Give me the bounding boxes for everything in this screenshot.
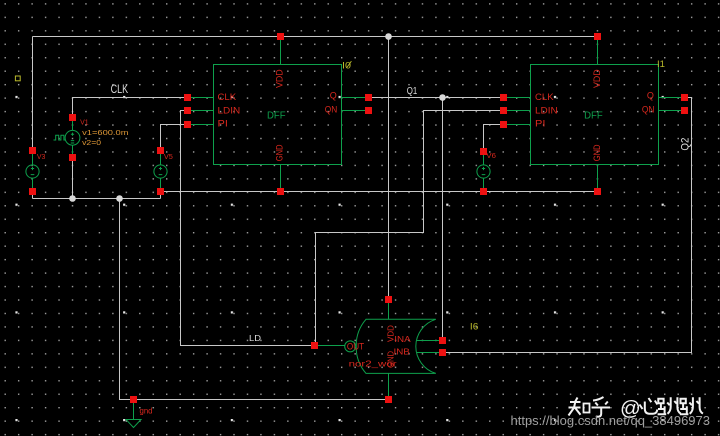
DFF I1 pin squares — [500, 33, 688, 195]
watermark zhihu — [569, 397, 611, 417]
vsource V5 — [154, 151, 167, 192]
V5 terminals — [157, 147, 164, 195]
svg-text:Q: Q — [330, 91, 337, 101]
DFF I0 labels — [218, 69, 338, 161]
svg-text:Q: Q — [647, 91, 654, 101]
svg-text:DFF: DFF — [584, 111, 603, 122]
vsource V6 — [477, 152, 490, 192]
svg-text:QN: QN — [325, 104, 338, 114]
svg-text:V6: V6 — [486, 151, 496, 160]
vsource V1 (vpulse) — [54, 118, 80, 158]
wire V3 top drop — [32, 37, 34, 151]
svg-text:Q2: Q2 — [680, 138, 692, 151]
svg-text:nor2_wor: nor2_wor — [349, 360, 397, 369]
nor2 pin squares — [311, 296, 446, 403]
wire LD net from right DFF LDIN — [316, 111, 504, 346]
wire PI to V5 — [161, 125, 188, 151]
svg-text:VDD: VDD — [592, 69, 603, 88]
DFF I1 labels — [535, 69, 654, 161]
junction VDD rail/mid drop — [385, 33, 392, 40]
svg-text:V3: V3 — [37, 152, 46, 161]
svg-text:VDD: VDD — [275, 69, 286, 88]
junction rail V1 — [69, 195, 76, 202]
V6 terminals — [480, 148, 487, 195]
wire V5 bottom stub — [160, 192, 162, 199]
wire VDD top rail — [33, 36, 598, 38]
sheet marker — [15, 76, 20, 81]
svg-text:INA: INA — [394, 334, 411, 344]
DFF I1 body — [503, 37, 685, 192]
wire V1 bottom stub — [72, 158, 74, 199]
DFF I0 pin squares — [184, 33, 372, 195]
wire Q1 to INA — [442, 98, 444, 341]
wire Q1 net — [369, 97, 504, 99]
svg-text:I1: I1 — [657, 59, 665, 69]
junction Q1/INA — [439, 94, 446, 101]
V1 terminals — [69, 114, 76, 161]
svg-text:I6: I6 — [470, 321, 479, 331]
wire VDD mid drop to nor2 — [388, 37, 390, 300]
svg-text:LDIN: LDIN — [535, 106, 558, 117]
ground symbol — [126, 403, 141, 428]
svg-text:V1: V1 — [80, 117, 89, 126]
wire Q2 net — [443, 98, 692, 353]
svg-text:v2=0: v2=0 — [82, 138, 101, 147]
svg-text:OUT: OUT — [347, 342, 364, 353]
svg-text:PI: PI — [535, 119, 545, 130]
svg-text:V5: V5 — [164, 152, 173, 161]
wire gnd net across — [161, 191, 598, 193]
svg-text:Q1: Q1 — [407, 85, 418, 97]
wire right PI to V6 — [484, 125, 504, 152]
wire LD net from left DFF LDIN — [181, 111, 315, 346]
svg-text:gnd: gnd — [140, 406, 153, 416]
svg-text:GND: GND — [592, 144, 603, 161]
wire source bottom rail — [33, 198, 161, 200]
svg-text:VDD: VDD — [385, 325, 395, 342]
V3 terminals — [29, 147, 36, 195]
svg-text:QN: QN — [642, 104, 655, 114]
svg-text:LD: LD — [249, 333, 261, 343]
junction rail gnd drop — [116, 195, 123, 202]
svg-text:INB: INB — [394, 347, 411, 357]
svg-text:PI: PI — [218, 119, 228, 130]
svg-text:GND: GND — [275, 144, 286, 161]
ground terminal — [130, 396, 137, 403]
wire gnd drop to nor2 GND — [120, 199, 389, 400]
svg-text:DFF: DFF — [267, 111, 286, 122]
svg-text:I0: I0 — [342, 60, 351, 70]
svg-text:CLK: CLK — [111, 84, 129, 96]
svg-text:v1=600.0m: v1=600.0m — [82, 128, 128, 137]
svg-text:LDIN: LDIN — [218, 105, 241, 116]
svg-text:CLK: CLK — [218, 92, 237, 103]
DFF I0 body — [187, 37, 369, 192]
svg-text:https://blog.csdn.net/qq_38496: https://blog.csdn.net/qq_38496973 — [511, 413, 711, 428]
svg-text:CLK: CLK — [535, 92, 554, 103]
wire CLK net — [73, 98, 188, 118]
wire V3 bottom stub — [32, 192, 34, 199]
nor2 pin labels — [347, 325, 411, 368]
vsource V3 — [26, 151, 39, 192]
nor2 I6 body — [318, 303, 439, 396]
